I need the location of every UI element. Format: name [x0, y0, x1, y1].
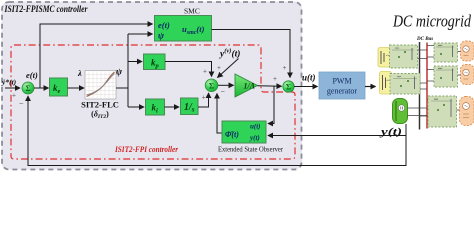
svg-text:Σ: Σ	[209, 81, 214, 90]
svg-text:ISIT2-FPISMC controller: ISIT2-FPISMC controller	[4, 5, 88, 15]
svg-text:+: +	[202, 94, 206, 102]
wires bus to row2 right	[427, 70, 434, 82]
svg-text:u(t): u(t)	[250, 123, 261, 131]
label y^(v)(t)	[219, 48, 240, 60]
PWM generator block	[319, 72, 365, 99]
svg-text:ψ: ψ	[158, 31, 165, 41]
wire y^(v)(t) diagonal into S2	[218, 59, 239, 78]
source block yellow row2 left (controlled)	[380, 72, 392, 95]
svg-text:DC microgrid: DC microgrid	[392, 12, 471, 31]
wire u_smc to S3	[212, 30, 291, 78]
wire row1 right box to capsule	[458, 51, 461, 53]
wire 1/Lambda to S3	[258, 85, 282, 87]
svg-text:generator: generator	[327, 87, 358, 96]
title DC microgrid	[392, 12, 471, 31]
label Extended State Observer	[218, 145, 283, 154]
summing junction S3	[283, 81, 294, 92]
DC bus line black	[419, 42, 421, 130]
wires row2 left to bus	[420, 83, 427, 89]
svg-text:y(t): y(t)	[249, 134, 260, 142]
summing junction S1	[22, 82, 34, 94]
svg-text:e(t): e(t)	[158, 20, 170, 30]
wire row2 right box to capsule	[458, 74, 461, 76]
svg-text:+: +	[217, 64, 221, 72]
wires bus to row1 right	[427, 46, 434, 58]
wire e(t) branch up to SMC	[40, 24, 153, 88]
wire k_p to S2	[165, 62, 212, 77]
label e(t)	[26, 70, 38, 80]
sign + 1/s into S2	[202, 94, 206, 102]
sign + into S3	[273, 75, 277, 83]
svg-text:Extended State Observer: Extended State Observer	[218, 145, 283, 154]
svg-text:−: −	[221, 88, 226, 97]
summing junction S2	[205, 79, 218, 92]
label SMC	[184, 7, 200, 16]
svg-text:+: +	[203, 68, 207, 76]
label ISIT2-FPI controller	[114, 144, 178, 154]
svg-text:Σ: Σ	[286, 83, 291, 92]
label lambda	[77, 68, 82, 78]
source block yellow row1 left	[378, 48, 392, 68]
svg-text:SIT2-FLC: SIT2-FLC	[81, 100, 119, 110]
integrator block 1/s	[181, 98, 199, 115]
sign + of input	[12, 92, 16, 100]
svg-text:Φ̂(t): Φ̂(t)	[225, 130, 239, 139]
controller background panel	[2, 2, 303, 170]
label ydot*(t)	[1, 78, 17, 87]
wire Phi-hat ESO to S2	[217, 94, 222, 134]
wire psi trunk	[116, 34, 128, 107]
wire input ydot*(t)	[5, 87, 20, 89]
sign + k_p into S2	[203, 68, 207, 76]
title ISIT2-FPISMC controller	[4, 5, 88, 15]
svg-text:+: +	[283, 64, 287, 72]
wire 1/s to S2	[198, 93, 209, 107]
wire S2 to 1/Lambda	[218, 84, 234, 86]
wire y(t) feedback to S1	[28, 96, 406, 166]
DC bus line red	[426, 43, 428, 129]
svg-text:u(t): u(t)	[302, 73, 316, 83]
sign + u_smc into S3	[283, 64, 287, 72]
svg-text:SMC: SMC	[184, 7, 200, 16]
outer dashed box ISIT2-FPISMC controller	[2, 2, 302, 170]
converter box row1 left	[390, 45, 418, 68]
sign - of feedback into S1	[19, 99, 24, 108]
wire S1 to k_e	[34, 87, 49, 89]
wire k_e to SIT2-FLC	[68, 87, 85, 89]
wire row3 right box to capsule	[457, 109, 460, 111]
svg-text:y(t): y(t)	[379, 127, 402, 138]
svg-text:−: −	[19, 99, 24, 108]
SMC block	[155, 16, 212, 42]
gain block k_i	[146, 99, 165, 115]
gain block k_e	[50, 78, 68, 96]
converter box row3 right	[428, 96, 457, 127]
label psi	[116, 67, 123, 77]
label SIT2-FLC	[81, 100, 119, 110]
sign + y^(v) into S2	[217, 64, 221, 72]
label (delta_IT2)	[91, 110, 109, 121]
load capsule green left	[393, 99, 408, 124]
SIT2-FLC plot block	[85, 71, 116, 100]
ESO block	[222, 121, 266, 143]
wire S3 to PWM	[294, 86, 317, 88]
wire psi to k_i	[128, 106, 144, 108]
svg-text:ISIT2-FPI controller: ISIT2-FPI controller	[114, 144, 178, 154]
load capsule orange row3 right	[460, 97, 474, 126]
load capsule orange row1 right	[461, 41, 474, 61]
label y(t) feedback	[379, 127, 402, 138]
converter box row1 right	[434, 43, 458, 62]
wire u tap down to ESO	[268, 86, 274, 124]
wires row1 left to bus	[418, 50, 428, 59]
converter box row2 right	[434, 66, 458, 87]
label DC Bus	[416, 37, 433, 42]
red dash-dot box ISIT2-FPI controller	[11, 45, 295, 159]
converter box row2 left (controlled)	[390, 74, 420, 95]
wires bus to row3 right	[420, 100, 429, 116]
svg-text:+: +	[12, 92, 16, 100]
wire psi to k_p	[128, 61, 142, 63]
wires capsule to bus	[408, 108, 428, 116]
gain block k_p	[144, 54, 166, 70]
sign - Phi-hat into S2	[221, 88, 226, 97]
wire y(t) into ESO	[268, 135, 406, 137]
svg-text:PWM: PWM	[332, 77, 351, 86]
label u(t)	[302, 73, 316, 83]
svg-text:ẏ*(t): ẏ*(t)	[1, 78, 17, 87]
svg-text:Σ: Σ	[25, 84, 30, 93]
wire PWM to converter	[365, 86, 376, 88]
svg-text:e(t): e(t)	[26, 70, 38, 80]
svg-text:λ: λ	[77, 68, 82, 78]
svg-text:1/Λ: 1/Λ	[244, 82, 256, 91]
svg-text:DC Bus: DC Bus	[416, 37, 433, 42]
wire k_i to 1/s	[165, 106, 180, 108]
gain triangle 1/Lambda	[235, 74, 258, 97]
svg-text:ψ: ψ	[116, 67, 123, 77]
svg-text:+: +	[273, 75, 277, 83]
load capsule orange row2 right	[461, 65, 474, 85]
wire psi to SMC	[128, 33, 153, 35]
